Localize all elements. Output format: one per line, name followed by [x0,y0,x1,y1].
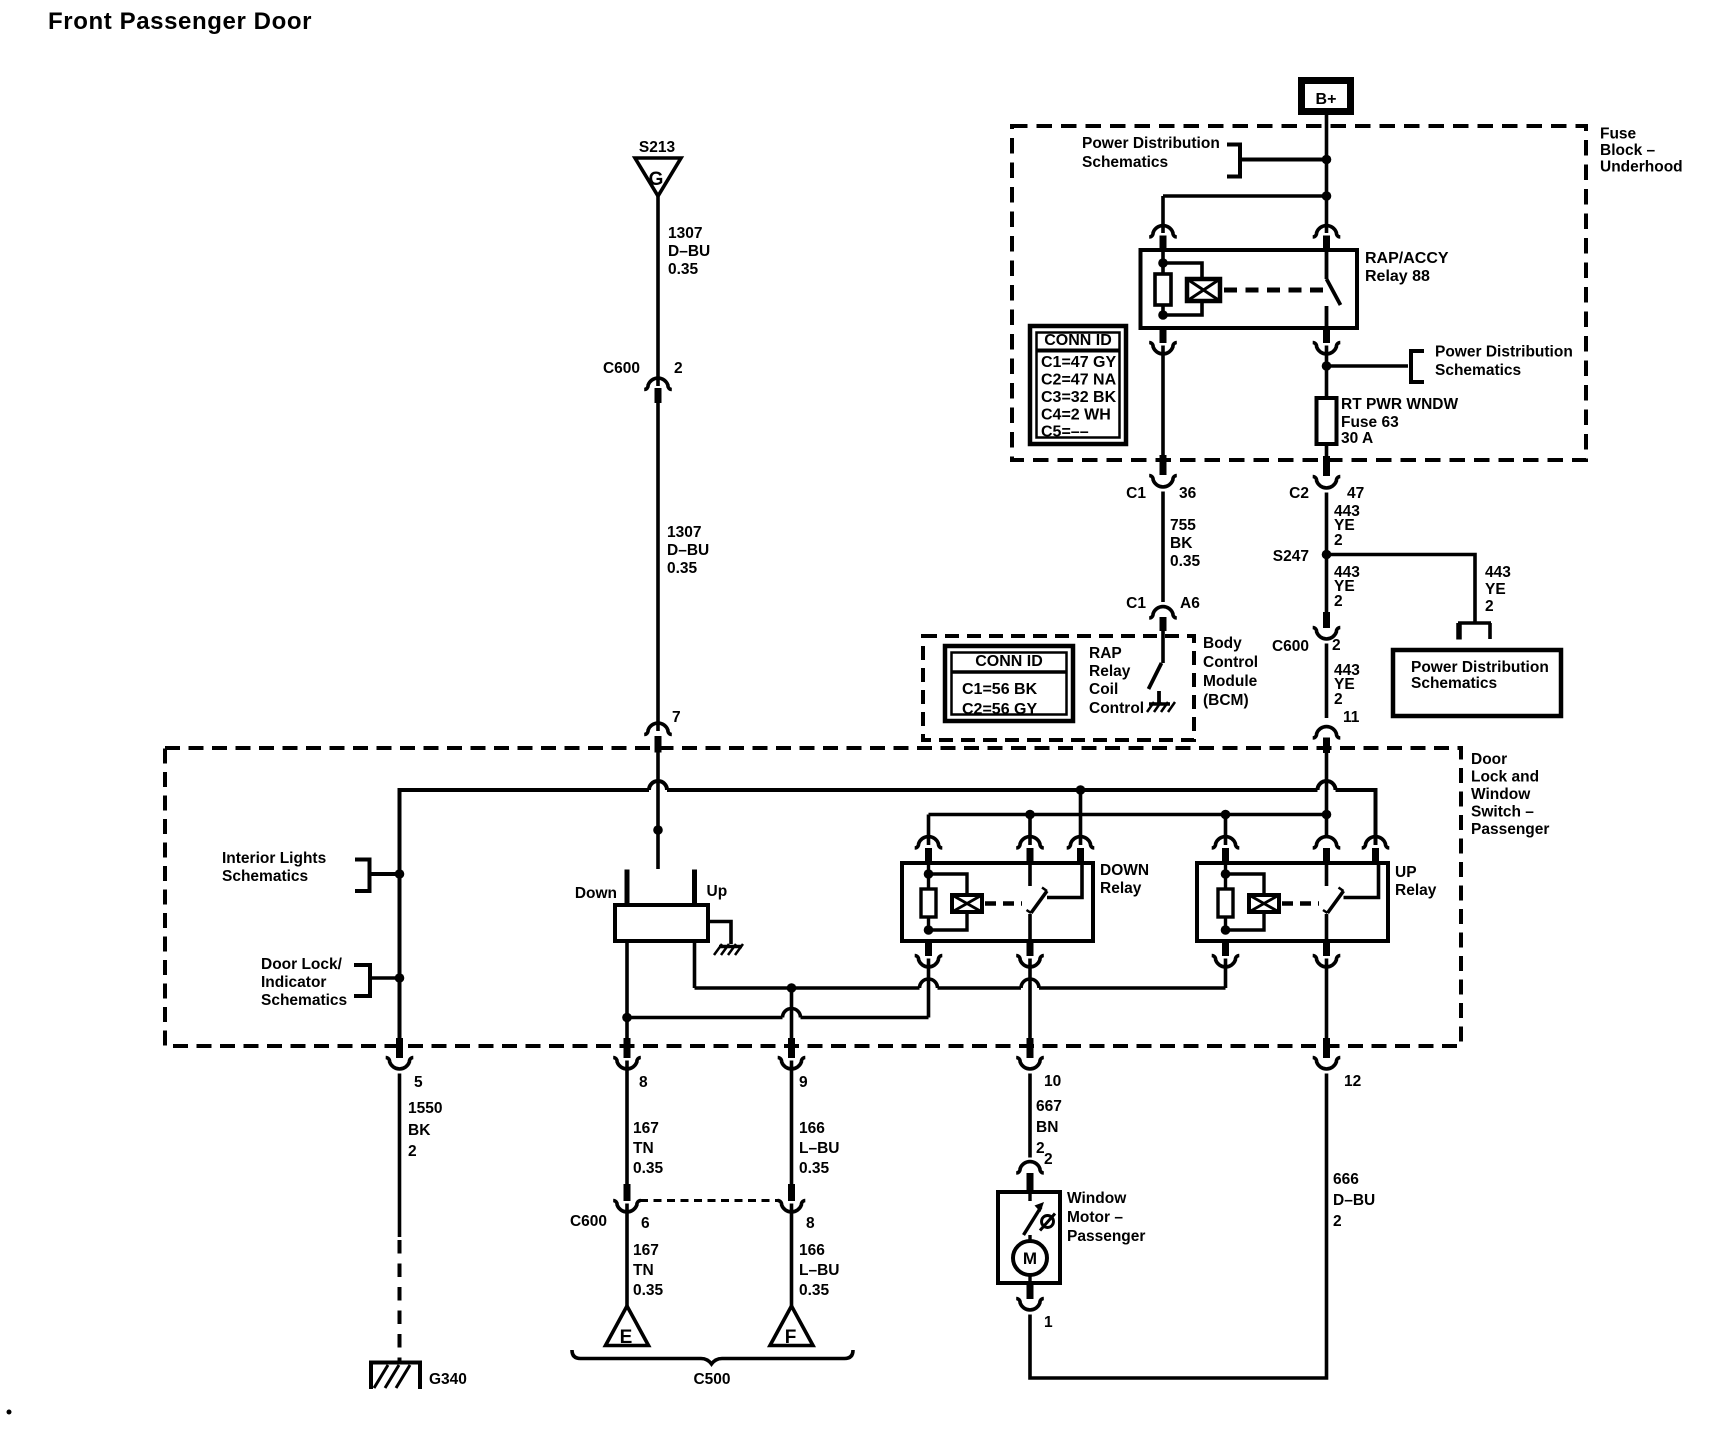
svg-text:RAP/ACCY: RAP/ACCY [1365,250,1449,267]
svg-text:Schematics: Schematics [1082,154,1168,171]
svg-text:167: 167 [633,1120,659,1137]
svg-text:Schematics: Schematics [1435,362,1521,379]
svg-text:L–BU: L–BU [799,1140,839,1157]
svg-text:12: 12 [1344,1073,1361,1090]
svg-text:0.35: 0.35 [799,1160,830,1177]
svg-text:Door Lock/: Door Lock/ [261,956,343,973]
svg-text:Control: Control [1089,700,1144,717]
svg-text:UP: UP [1395,864,1417,881]
svg-text:167: 167 [633,1242,659,1259]
svg-text:C3=32 BK: C3=32 BK [1041,389,1117,406]
svg-text:Passenger: Passenger [1067,1228,1145,1245]
svg-text:Block –: Block – [1600,142,1656,159]
svg-text:Interior Lights: Interior Lights [222,850,326,867]
svg-text:C5=––: C5=–– [1041,424,1089,441]
svg-text:Body: Body [1203,635,1242,652]
svg-text:10: 10 [1044,1073,1061,1090]
svg-text:DOWN: DOWN [1100,862,1149,879]
svg-text:Window: Window [1471,786,1531,803]
svg-text:BK: BK [408,1122,431,1139]
svg-text:0.35: 0.35 [1170,553,1201,570]
svg-text:CONN ID: CONN ID [975,653,1043,670]
svg-text:Down: Down [575,885,617,902]
svg-text:C1=56 BK: C1=56 BK [962,681,1038,698]
svg-text:E: E [620,1327,633,1348]
svg-text:C600: C600 [570,1213,607,1230]
svg-text:30 A: 30 A [1341,430,1373,447]
svg-text:Fuse 63: Fuse 63 [1341,414,1399,431]
svg-text:2: 2 [1485,598,1494,615]
svg-text:8: 8 [639,1074,648,1091]
svg-text:Relay: Relay [1395,882,1437,899]
svg-text:2: 2 [1044,1151,1053,1168]
svg-text:D–BU: D–BU [668,243,710,260]
svg-text:BK: BK [1170,535,1193,552]
svg-text:C2=47 NA: C2=47 NA [1041,372,1117,389]
svg-text:(BCM): (BCM) [1203,692,1249,709]
svg-text:Schematics: Schematics [261,992,347,1009]
svg-text:9: 9 [799,1074,808,1091]
svg-text:L–BU: L–BU [799,1262,839,1279]
svg-text:Control: Control [1203,654,1258,671]
svg-text:C2: C2 [1289,485,1309,502]
svg-text:S213: S213 [639,139,676,156]
svg-text:667: 667 [1036,1098,1062,1115]
svg-text:Door: Door [1471,751,1507,768]
svg-text:C2=56 GY: C2=56 GY [962,701,1037,718]
svg-text:Relay: Relay [1089,663,1131,680]
svg-text:0.35: 0.35 [668,261,699,278]
svg-text:Front Passenger Door: Front Passenger Door [48,8,312,35]
svg-text:443: 443 [1485,564,1511,581]
svg-text:G: G [649,169,664,190]
svg-text:Power Distribution: Power Distribution [1411,659,1549,676]
svg-text:C1: C1 [1126,485,1146,502]
svg-text:Schematics: Schematics [222,868,308,885]
svg-text:TN: TN [633,1140,654,1157]
svg-text:47: 47 [1347,485,1364,502]
svg-text:0.35: 0.35 [799,1282,830,1299]
svg-text:B+: B+ [1316,91,1337,108]
svg-text:Motor –: Motor – [1067,1209,1123,1226]
svg-text:1307: 1307 [668,225,702,242]
svg-text:1307: 1307 [667,524,701,541]
svg-text:166: 166 [799,1242,825,1259]
svg-text:C1: C1 [1126,595,1146,612]
svg-text:2: 2 [674,360,683,377]
svg-text:Window: Window [1067,1190,1127,1207]
svg-text:Schematics: Schematics [1411,675,1497,692]
svg-text:CONN ID: CONN ID [1044,332,1112,349]
svg-text:Up: Up [707,883,728,900]
svg-text:0.35: 0.35 [633,1282,664,1299]
svg-text:Power Distribution: Power Distribution [1435,344,1573,361]
svg-text:6: 6 [641,1215,650,1232]
svg-text:Relay 88: Relay 88 [1365,268,1430,285]
svg-text:Fuse: Fuse [1600,126,1637,143]
svg-text:C1=47 GY: C1=47 GY [1041,354,1116,371]
svg-text:7: 7 [672,709,681,726]
svg-text:Underhood: Underhood [1600,159,1683,176]
svg-text:Coil: Coil [1089,681,1118,698]
svg-text:RT PWR WNDW: RT PWR WNDW [1341,396,1458,413]
svg-text:F: F [785,1327,797,1348]
svg-text:Relay: Relay [1100,880,1142,897]
svg-text:1550: 1550 [408,1100,442,1117]
svg-text:2: 2 [1334,532,1343,549]
svg-text:C4=2 WH: C4=2 WH [1041,407,1111,424]
svg-text:2: 2 [1333,1213,1342,1230]
svg-text:0.35: 0.35 [667,560,698,577]
svg-text:C600: C600 [603,360,640,377]
svg-text:C500: C500 [693,1371,730,1388]
svg-text:Module: Module [1203,673,1258,690]
svg-text:Lock and: Lock and [1471,769,1539,786]
svg-text:0.35: 0.35 [633,1160,664,1177]
svg-text:C600: C600 [1272,638,1309,655]
svg-text:A6: A6 [1180,595,1200,612]
svg-text:D–BU: D–BU [1333,1192,1375,1209]
svg-text:666: 666 [1333,1171,1359,1188]
svg-text:2: 2 [1334,593,1343,610]
svg-text:S247: S247 [1273,548,1309,565]
svg-text:Indicator: Indicator [261,974,326,991]
svg-text:1: 1 [1044,1314,1053,1331]
svg-text:5: 5 [414,1074,423,1091]
svg-text:166: 166 [799,1120,825,1137]
svg-text:11: 11 [1343,709,1360,726]
svg-text:Switch –: Switch – [1471,804,1534,821]
svg-text:RAP: RAP [1089,645,1122,662]
svg-text:36: 36 [1179,485,1197,502]
svg-text:Power Distribution: Power Distribution [1082,135,1220,152]
svg-text:2: 2 [408,1143,417,1160]
svg-text:BN: BN [1036,1119,1058,1136]
svg-text:YE: YE [1485,581,1506,598]
svg-text:M: M [1023,1249,1037,1268]
svg-text:G340: G340 [429,1371,467,1388]
svg-text:2: 2 [1334,691,1343,708]
svg-text:2: 2 [1332,637,1341,654]
svg-text:TN: TN [633,1262,654,1279]
svg-text:755: 755 [1170,517,1196,534]
svg-text:D–BU: D–BU [667,542,709,559]
svg-text:8: 8 [806,1215,815,1232]
svg-text:Passenger: Passenger [1471,821,1549,838]
